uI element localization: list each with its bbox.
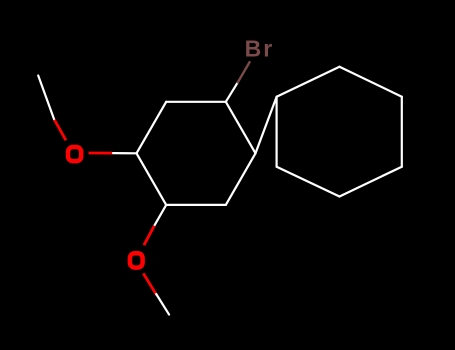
bond C6-O2 oxygen half (red) bbox=[144, 226, 154, 246]
bond C2-C3 (top edge B-C) bbox=[166, 101, 226, 103]
svg-text:Br: Br bbox=[245, 36, 275, 62]
bond C5'-C6' (edge T-U) bbox=[277, 167, 340, 197]
bond C3-Br carbon half (white) bbox=[226, 82, 238, 102]
bond O2-CH3 carbon half (white) bbox=[156, 294, 169, 315]
bond C3'-C4' (right edge R-S) bbox=[401, 97, 403, 167]
ring 2 (right phenyl/cyclohexyl ring) bbox=[277, 67, 402, 197]
bond C4'-C5' (edge S-T) bbox=[340, 167, 402, 197]
bond O1-CH3 carbon half (white) bbox=[38, 76, 54, 120]
bond C6-O2 carbon half (white) bbox=[154, 205, 166, 226]
bond C1'-C2' (edge P-Q) bbox=[277, 67, 340, 97]
bond C3-C4 (edge C-D) bbox=[226, 102, 256, 154]
bond C1-O1 carbon half (white) bbox=[112, 152, 136, 154]
atom label O2 bbox=[130, 253, 143, 267]
atom label O1 bbox=[68, 147, 81, 161]
bond C1-O1 oxygen half (red) bbox=[89, 152, 113, 155]
bond C4-C1' biphenyl link bbox=[256, 97, 277, 154]
bond C4-C5 (edge D-E) bbox=[226, 153, 256, 205]
bond C6'-C1' (left edge U-P) bbox=[276, 97, 278, 167]
bond C5-C6 (bottom edge E-F) bbox=[166, 204, 226, 206]
bond C6-C1 (edge F-A) bbox=[137, 153, 167, 205]
bond O1-CH3 oxygen half (red) bbox=[54, 119, 66, 140]
bond C2'-C3' (edge Q-R) bbox=[340, 67, 402, 97]
benzene ring 1 (left, dimethoxy-bromo ring) bbox=[137, 102, 256, 205]
bond C1-C2 (edge A-B) bbox=[137, 102, 167, 154]
bond O2-CH3 oxygen half (red) bbox=[143, 273, 156, 295]
bond C3-Br bromine half (dark red) bbox=[238, 62, 250, 82]
